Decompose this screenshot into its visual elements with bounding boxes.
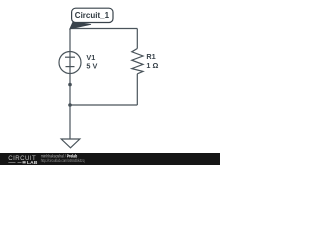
ground bbox=[61, 139, 80, 148]
wire: right vertical from resistor bottom to bottom corner bbox=[136, 74, 138, 105]
value label 1 Ω bbox=[146, 61, 158, 70]
wire: right vertical from top corner down to resistor bbox=[136, 29, 138, 49]
svg-text:5 V: 5 V bbox=[86, 61, 97, 70]
junction node bbox=[68, 103, 72, 107]
label V1 bbox=[86, 53, 95, 62]
label callout Circuit_1 bbox=[70, 8, 113, 29]
label R1 bbox=[146, 52, 155, 61]
banner logo CIRCUIT LAB bbox=[8, 155, 38, 166]
svg-text:LAB: LAB bbox=[27, 160, 38, 165]
voltage source V1 bbox=[59, 52, 81, 74]
banner text line 2: url bbox=[41, 158, 85, 163]
svg-text:1 Ω: 1 Ω bbox=[146, 61, 158, 70]
banner text line 1: author / title bbox=[41, 154, 78, 159]
wire: left vertical from V1 bottom to junction bbox=[69, 73, 71, 105]
node: V1 negative terminal junction bbox=[68, 83, 72, 87]
wire: bottom horizontal from right corner to junction bbox=[70, 104, 137, 106]
resistor R1 bbox=[132, 49, 143, 74]
banner background bbox=[0, 153, 220, 165]
wire: top horizontal from node A to resistor branch bbox=[70, 28, 137, 30]
svg-text:http://circuitlab.com/c6644bk4: http://circuitlab.com/c6644bk4zq bbox=[41, 158, 85, 163]
svg-text:Circuit_1: Circuit_1 bbox=[75, 11, 110, 20]
wire: left vertical from node A down to V1 top bbox=[69, 29, 71, 53]
wire: vertical from junction down to ground bbox=[69, 105, 71, 139]
svg-text:R1: R1 bbox=[146, 52, 155, 61]
value label 5 V bbox=[86, 61, 97, 70]
